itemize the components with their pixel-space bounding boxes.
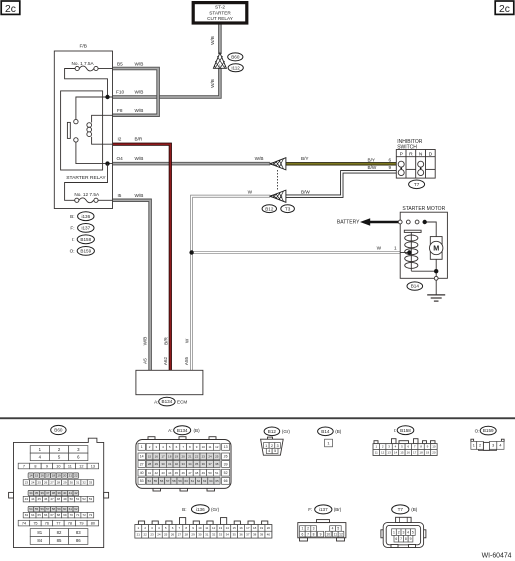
starter motor case pin — [434, 276, 438, 280]
connector pinout i136 — [135, 518, 272, 538]
svg-text:N: N — [419, 151, 423, 157]
svg-text:80: 80 — [91, 521, 95, 525]
svg-text:i137: i137 — [319, 507, 328, 512]
svg-text:7: 7 — [307, 532, 309, 536]
relay box ST-2 STARTER CUT RELAY — [193, 3, 247, 23]
svg-text:i136: i136 — [196, 507, 205, 512]
svg-text:M: M — [433, 244, 439, 253]
svg-text:60: 60 — [63, 507, 67, 511]
wire B/Y from triangle to inhibitor switch pin 6 — [286, 162, 396, 165]
svg-text:O4: O4 — [117, 156, 124, 161]
svg-text:27: 27 — [178, 533, 182, 537]
connector pinout B12 — [261, 437, 284, 455]
svg-text:B158: B158 — [400, 428, 411, 433]
svg-text:34: 34 — [226, 533, 230, 537]
svg-text:12: 12 — [212, 526, 216, 530]
svg-text:W: W — [248, 190, 253, 195]
connector ref B: i136 (Gr) — [182, 505, 219, 514]
svg-text:10: 10 — [56, 464, 60, 468]
svg-text:42: 42 — [74, 491, 78, 495]
svg-text:18: 18 — [168, 454, 172, 458]
zone label 2c top-right — [495, 1, 514, 15]
svg-text:R: R — [409, 151, 413, 157]
svg-text:53: 53 — [140, 479, 144, 483]
svg-text:40: 40 — [63, 491, 67, 495]
svg-text:85: 85 — [57, 538, 62, 543]
svg-text:21: 21 — [69, 474, 73, 478]
connector ref O: B159 — [475, 426, 497, 435]
svg-text:73: 73 — [89, 513, 93, 517]
connector pinout B60 — [9, 438, 109, 547]
svg-text:13: 13 — [219, 526, 223, 530]
label INHIBITOR SWITCH — [397, 139, 423, 151]
svg-text:A62: A62 — [163, 356, 168, 365]
pin label I5 — [118, 193, 144, 198]
connector ref I: B158 — [72, 235, 94, 244]
connector triangle B60-i112 — [213, 53, 226, 69]
wire W/B pin I5 down to ECM pin A5 — [113, 200, 151, 370]
connector ref F: i137 — [70, 224, 94, 233]
svg-text:39: 39 — [57, 491, 61, 495]
connector ref A: B134 (B) — [168, 426, 200, 435]
svg-text:10: 10 — [202, 445, 206, 449]
connector pinout T7 — [381, 517, 426, 547]
svg-text:61: 61 — [191, 479, 195, 483]
label B/W after triangle — [301, 190, 310, 195]
svg-text:7: 7 — [400, 537, 402, 541]
svg-text:5: 5 — [274, 449, 276, 453]
connector pinout B159 — [471, 439, 504, 450]
svg-text:53: 53 — [89, 497, 93, 501]
wire fuse No.1 to F10 junction — [65, 69, 108, 98]
svg-text:F:: F: — [308, 507, 312, 512]
pin label O4 — [117, 156, 144, 161]
connector pinout B14 — [325, 439, 333, 447]
svg-text:50: 50 — [208, 471, 212, 475]
svg-text:F10: F10 — [116, 90, 124, 95]
svg-text:11: 11 — [208, 445, 211, 449]
svg-text:68: 68 — [57, 513, 61, 517]
wire W white from triangle T3 to junction and ECM pin A55 — [192, 196, 271, 370]
svg-text:B/R: B/R — [135, 137, 143, 142]
svg-text:19: 19 — [426, 451, 430, 455]
svg-text:26: 26 — [44, 481, 48, 485]
svg-text:27: 27 — [50, 481, 54, 485]
svg-text:40: 40 — [140, 471, 144, 475]
svg-text:A55: A55 — [184, 356, 189, 365]
svg-text:38: 38 — [52, 491, 56, 495]
svg-text:T7: T7 — [414, 182, 420, 187]
svg-text:51: 51 — [215, 471, 219, 475]
svg-text:STARTER: STARTER — [209, 10, 231, 15]
svg-text:3: 3 — [313, 527, 315, 531]
svg-text:W/B: W/B — [210, 36, 215, 45]
label W/B vertical A5 — [142, 337, 147, 346]
svg-text:21: 21 — [137, 533, 141, 537]
svg-text:A:: A: — [154, 399, 158, 404]
wire relay contact top to F10 junction — [76, 97, 113, 119]
svg-text:16: 16 — [239, 526, 243, 530]
svg-text:O:: O: — [475, 428, 480, 433]
svg-text:2c: 2c — [499, 4, 510, 15]
connector ref i112 — [228, 64, 243, 72]
label W/B before triangle — [255, 156, 264, 161]
svg-text:W/B: W/B — [135, 108, 144, 113]
svg-text:2: 2 — [479, 444, 481, 448]
svg-text:41: 41 — [69, 491, 73, 495]
svg-text:55: 55 — [154, 479, 158, 483]
svg-text:75: 75 — [33, 521, 37, 525]
svg-text:48: 48 — [57, 497, 61, 501]
svg-text:O:: O: — [70, 249, 75, 254]
svg-text:58: 58 — [52, 507, 56, 511]
svg-text:1: 1 — [141, 445, 143, 449]
relay contact — [67, 119, 78, 142]
svg-text:43: 43 — [25, 497, 29, 501]
svg-text:B159: B159 — [483, 428, 494, 433]
svg-text:45: 45 — [175, 471, 179, 475]
svg-text:13: 13 — [387, 451, 391, 455]
svg-text:32: 32 — [82, 481, 86, 485]
svg-text:13: 13 — [91, 464, 95, 468]
svg-text:(Gr): (Gr) — [211, 507, 220, 512]
svg-text:B12: B12 — [265, 206, 274, 211]
svg-text:3: 3 — [492, 444, 494, 448]
svg-text:22: 22 — [195, 454, 199, 458]
svg-text:W/B: W/B — [135, 61, 144, 66]
svg-text:33: 33 — [181, 462, 185, 466]
svg-text:10: 10 — [198, 526, 202, 530]
svg-text:36: 36 — [40, 491, 44, 495]
svg-text:B60: B60 — [54, 428, 63, 433]
svg-text:34: 34 — [29, 491, 33, 495]
svg-text:B/Y: B/Y — [301, 156, 309, 161]
svg-text:65: 65 — [215, 479, 219, 483]
svg-text:19: 19 — [260, 526, 264, 530]
svg-text:25: 25 — [38, 481, 42, 485]
wire W/B pin B5 loop to pin F8 — [113, 69, 159, 116]
svg-text:49: 49 — [63, 497, 67, 501]
svg-text:24: 24 — [157, 533, 161, 537]
svg-text:No. 12 7.5A: No. 12 7.5A — [74, 192, 100, 197]
svg-text:58: 58 — [172, 479, 176, 483]
svg-text:22: 22 — [74, 474, 78, 478]
document number WI-60474 — [482, 553, 512, 560]
connector triangle B12-T3 pin 1 — [270, 158, 286, 170]
svg-text:I2: I2 — [118, 137, 122, 142]
svg-text:W/B: W/B — [135, 193, 144, 198]
svg-text:62: 62 — [74, 507, 78, 511]
pin label 6 B/Y — [368, 157, 392, 162]
svg-text:27: 27 — [140, 462, 144, 466]
svg-text:1: 1 — [473, 444, 475, 448]
pin label 9 B/W — [368, 165, 392, 170]
svg-text:2: 2 — [398, 530, 400, 534]
junction node on W wire to starter motor — [189, 250, 193, 254]
svg-text:12: 12 — [339, 532, 343, 536]
svg-text:STARTER RELAY: STARTER RELAY — [66, 175, 106, 181]
svg-text:W: W — [184, 338, 189, 343]
label W/B vertical below connector — [210, 79, 215, 88]
connector ref B12 (Gr) — [264, 427, 290, 436]
ECM box — [136, 370, 203, 394]
svg-text:B:: B: — [182, 507, 186, 512]
svg-text:69: 69 — [63, 513, 67, 517]
pin label W 1 — [377, 245, 397, 250]
svg-text:14: 14 — [226, 526, 230, 530]
svg-text:W/B: W/B — [142, 337, 147, 346]
pin label A62 vertical — [163, 356, 168, 365]
svg-text:WI-60474: WI-60474 — [482, 553, 512, 560]
svg-text:1: 1 — [265, 444, 267, 448]
label B/R vertical A62 — [163, 336, 168, 344]
svg-text:28: 28 — [185, 533, 189, 537]
svg-text:18: 18 — [52, 474, 56, 478]
svg-text:i137: i137 — [81, 226, 90, 231]
label W vertical A55 — [184, 338, 189, 343]
dashed link between triangle connectors — [277, 170, 279, 191]
svg-text:11: 11 — [68, 464, 72, 468]
wire to ground — [435, 280, 437, 295]
svg-text:57: 57 — [46, 507, 50, 511]
svg-text:51: 51 — [76, 497, 80, 501]
svg-text:37: 37 — [208, 462, 212, 466]
svg-text:9: 9 — [320, 532, 322, 536]
label B/Y after triangle — [301, 156, 309, 161]
svg-text:30: 30 — [70, 481, 74, 485]
svg-text:ECM: ECM — [177, 399, 187, 404]
svg-text:22: 22 — [143, 533, 147, 537]
svg-text:57: 57 — [166, 479, 170, 483]
svg-text:14: 14 — [140, 455, 144, 459]
svg-text:12: 12 — [215, 445, 219, 449]
svg-text:17: 17 — [413, 451, 417, 455]
svg-text:39: 39 — [224, 462, 228, 466]
svg-text:(Br): (Br) — [334, 507, 342, 512]
svg-text:F8: F8 — [117, 108, 123, 113]
connector ref B14 — [407, 282, 423, 290]
fuse No. 12 7.5A — [74, 192, 100, 203]
connector ref B60 — [228, 53, 243, 61]
connector ref O: B159 — [70, 247, 95, 256]
svg-text:D: D — [429, 151, 433, 157]
svg-text:15: 15 — [35, 474, 39, 478]
svg-text:47: 47 — [188, 471, 192, 475]
starter motor box — [400, 212, 447, 278]
label BATTERY — [337, 220, 360, 226]
relay coil — [87, 115, 113, 144]
svg-text:24: 24 — [31, 481, 35, 485]
svg-text:I:: I: — [394, 428, 397, 433]
svg-text:35: 35 — [35, 491, 39, 495]
svg-text:59: 59 — [57, 507, 61, 511]
svg-text:20: 20 — [432, 451, 436, 455]
svg-text:31: 31 — [168, 462, 172, 466]
motor M — [430, 237, 443, 260]
svg-text:24: 24 — [208, 454, 212, 458]
connector pinout i137 — [298, 520, 346, 541]
junction node motor ground — [434, 269, 438, 273]
wire motor to ground node — [411, 259, 436, 276]
svg-text:11: 11 — [205, 526, 208, 530]
wire terminal to motor — [425, 222, 437, 237]
svg-text:35: 35 — [195, 462, 199, 466]
svg-text:60: 60 — [185, 479, 189, 483]
wire B/W from triangle T3 to inhibitor switch pin 9 — [286, 172, 396, 196]
svg-text:25: 25 — [215, 454, 219, 458]
svg-text:10: 10 — [326, 532, 330, 536]
svg-text:63: 63 — [25, 513, 29, 517]
svg-text:29: 29 — [191, 533, 195, 537]
pin label B5 — [117, 61, 143, 66]
starter motor terminals — [398, 220, 419, 224]
svg-text:33: 33 — [219, 533, 223, 537]
connector ref B14 (B) — [318, 427, 342, 436]
svg-text:ST-2: ST-2 — [215, 5, 225, 10]
svg-text:CUT RELAY: CUT RELAY — [207, 16, 234, 21]
fuse No. 1 7.5A — [72, 61, 99, 71]
fuse box F/B outline — [54, 44, 112, 209]
svg-text:20: 20 — [181, 454, 185, 458]
svg-text:16: 16 — [155, 454, 159, 458]
pin label F8 — [117, 108, 143, 113]
svg-text:36: 36 — [202, 462, 206, 466]
svg-text:31: 31 — [76, 481, 80, 485]
svg-text:41: 41 — [148, 471, 152, 475]
svg-text:62: 62 — [197, 479, 201, 483]
svg-text:12: 12 — [381, 451, 385, 455]
svg-text:63: 63 — [203, 479, 207, 483]
svg-text:1: 1 — [219, 64, 221, 68]
svg-text:18: 18 — [253, 526, 257, 530]
svg-text:W/B: W/B — [135, 156, 144, 161]
svg-text:35: 35 — [232, 533, 236, 537]
svg-text:23: 23 — [25, 481, 29, 485]
svg-text:50: 50 — [70, 497, 74, 501]
svg-text:9: 9 — [389, 165, 392, 170]
svg-text:1: 1 — [394, 245, 397, 250]
svg-text:44: 44 — [168, 471, 172, 475]
svg-text:5: 5 — [412, 530, 414, 534]
svg-text:79: 79 — [79, 521, 83, 525]
svg-text:6: 6 — [301, 532, 303, 536]
svg-text:B/Y: B/Y — [368, 157, 376, 162]
connector ref B12 — [262, 205, 276, 213]
svg-text:1: 1 — [393, 530, 395, 534]
svg-text:72: 72 — [82, 513, 86, 517]
svg-text:A5: A5 — [142, 358, 147, 364]
svg-text:20: 20 — [63, 474, 67, 478]
svg-text:76: 76 — [45, 521, 49, 525]
svg-text:40: 40 — [267, 533, 271, 537]
svg-text:70: 70 — [70, 513, 74, 517]
solenoid coil — [405, 232, 418, 271]
svg-text:44: 44 — [31, 497, 35, 501]
svg-text:(B): (B) — [335, 429, 342, 434]
svg-text:18: 18 — [419, 451, 423, 455]
svg-text:T3: T3 — [285, 206, 291, 211]
svg-text:36: 36 — [239, 533, 243, 537]
svg-text:BATTERY: BATTERY — [337, 220, 360, 226]
connector ref T7 (B) — [392, 505, 418, 514]
svg-text:14: 14 — [394, 451, 398, 455]
svg-text:9: 9 — [410, 537, 412, 541]
inhibitor switch body — [396, 150, 435, 179]
svg-text:17: 17 — [246, 526, 250, 530]
svg-text:B:: B: — [70, 214, 74, 219]
svg-text:B14: B14 — [411, 284, 420, 289]
svg-text:28: 28 — [148, 462, 152, 466]
svg-text:i112: i112 — [232, 65, 241, 70]
svg-text:20: 20 — [267, 526, 271, 530]
svg-text:No. 1 7.5A: No. 1 7.5A — [72, 61, 95, 66]
label A: B134 ECM — [154, 397, 187, 406]
junction node O4 — [105, 161, 109, 165]
svg-text:77: 77 — [56, 521, 60, 525]
svg-text:32: 32 — [175, 462, 179, 466]
solenoid plunger bar — [404, 230, 421, 232]
svg-text:31: 31 — [205, 533, 209, 537]
svg-text:2: 2 — [307, 527, 309, 531]
junction node F10 — [105, 95, 109, 99]
svg-text:29: 29 — [63, 481, 67, 485]
svg-text:46: 46 — [44, 497, 48, 501]
svg-text:30: 30 — [161, 462, 165, 466]
svg-text:78: 78 — [68, 521, 72, 525]
label STARTER MOTOR — [402, 206, 445, 212]
svg-text:47: 47 — [50, 497, 54, 501]
svg-text:13: 13 — [224, 445, 228, 449]
svg-text:3: 3 — [277, 444, 279, 448]
wire relay contact bottom to O4 junction — [76, 142, 113, 164]
svg-text:7: 7 — [23, 464, 25, 468]
wire W white branch to starter motor pin 1 — [192, 251, 401, 254]
svg-text:1: 1 — [301, 527, 303, 531]
svg-text:28: 28 — [57, 481, 61, 485]
svg-text:66: 66 — [224, 479, 228, 483]
svg-text:54: 54 — [29, 507, 33, 511]
svg-text:8: 8 — [313, 532, 315, 536]
svg-text:I5: I5 — [118, 193, 122, 198]
svg-text:T7: T7 — [398, 507, 404, 512]
svg-text:A:: A: — [168, 428, 172, 433]
svg-text:30: 30 — [198, 533, 202, 537]
svg-text:5: 5 — [337, 527, 339, 531]
svg-text:W/B: W/B — [135, 90, 144, 95]
zone label 2c top-left — [1, 1, 20, 15]
pin label A55 vertical — [184, 356, 189, 365]
wire W/B pin O4 to joint connector triangle — [113, 162, 271, 166]
svg-text:B12: B12 — [268, 429, 277, 434]
connector ref F: i137 (Br) — [308, 505, 342, 514]
svg-text:15: 15 — [148, 454, 152, 458]
svg-text:6: 6 — [389, 157, 392, 162]
svg-text:(B): (B) — [411, 507, 418, 512]
svg-text:49: 49 — [202, 471, 206, 475]
svg-text:14: 14 — [29, 474, 33, 478]
svg-text:P: P — [400, 151, 403, 157]
svg-text:F/B: F/B — [79, 44, 86, 50]
battery arrow — [360, 218, 400, 226]
svg-text:55: 55 — [35, 507, 39, 511]
starter relay inner box — [61, 91, 107, 181]
svg-text:3: 3 — [402, 530, 404, 534]
svg-text:B158: B158 — [80, 237, 91, 242]
svg-text:W/B: W/B — [255, 156, 264, 161]
svg-text:56: 56 — [160, 479, 164, 483]
svg-text:66: 66 — [44, 513, 48, 517]
svg-text:86: 86 — [76, 538, 81, 543]
